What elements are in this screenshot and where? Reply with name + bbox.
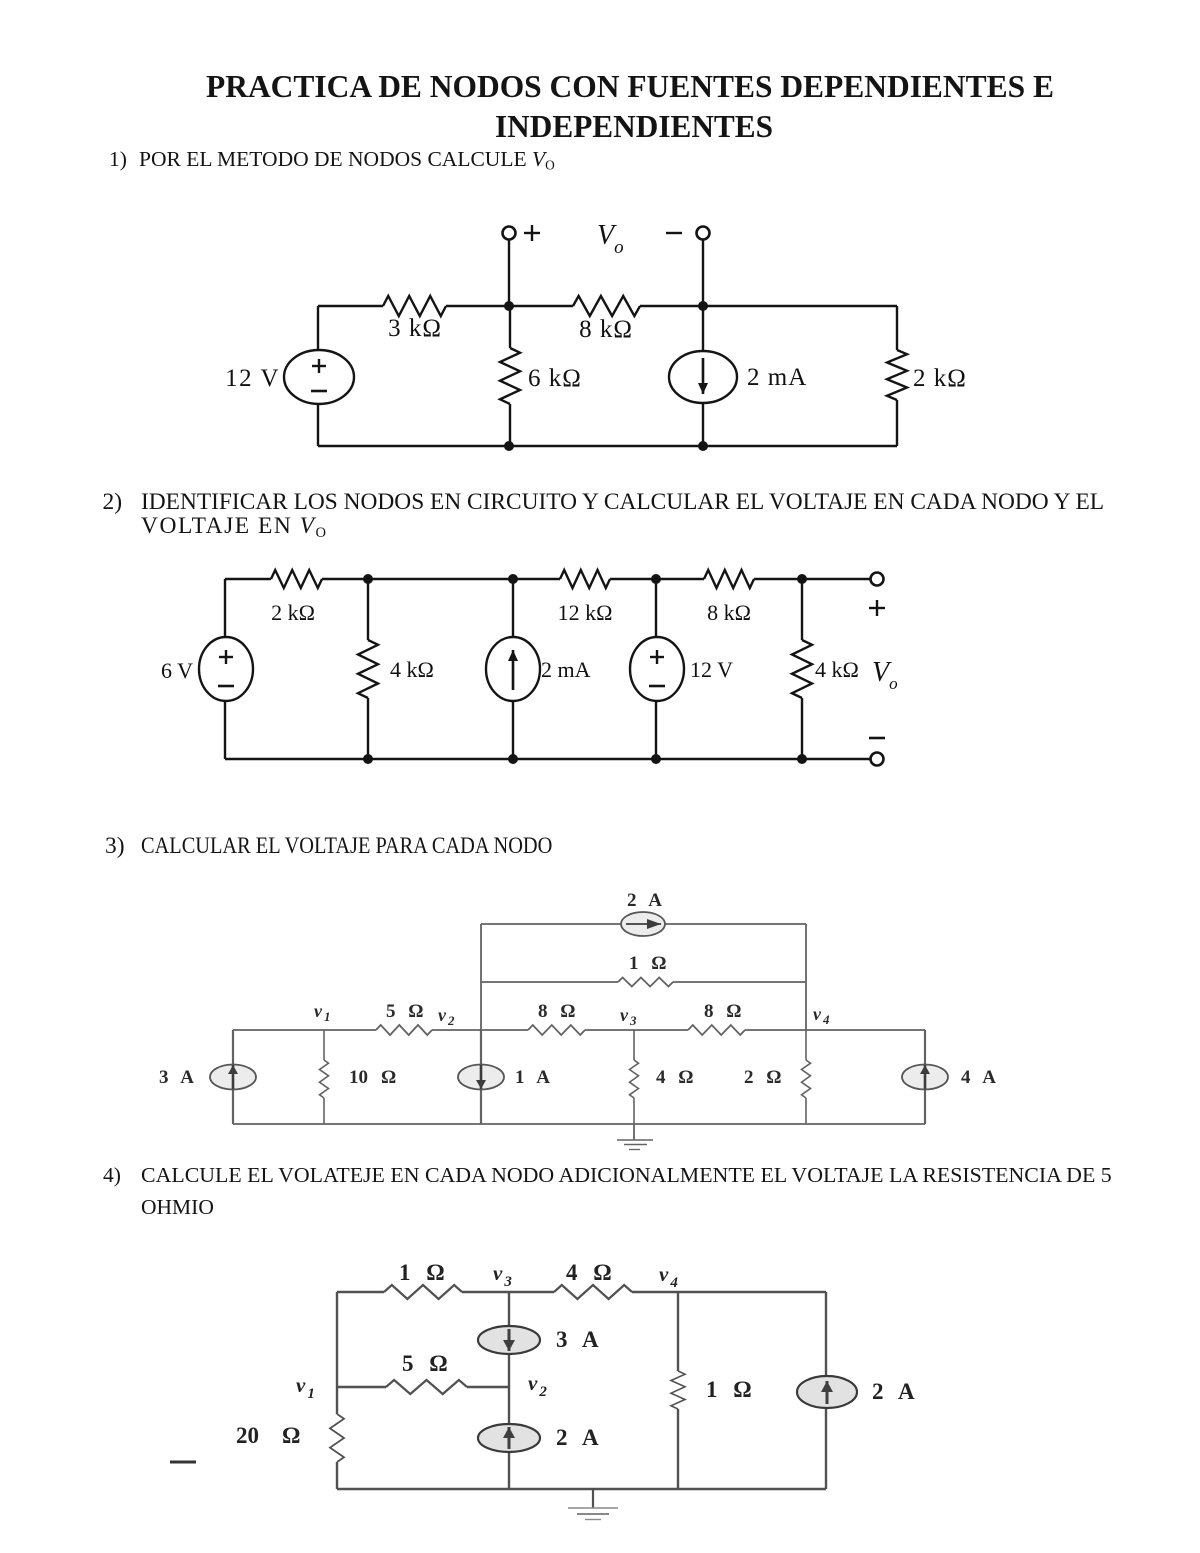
- svg-text:2 Ω: 2 Ω: [744, 1067, 785, 1088]
- svg-text:12 V: 12 V: [225, 365, 280, 392]
- svg-text:2 A: 2 A: [627, 890, 666, 911]
- svg-text:4 Ω: 4 Ω: [566, 1260, 617, 1285]
- svg-text:1 Ω: 1 Ω: [399, 1260, 450, 1285]
- svg-text:v3: v3: [493, 1261, 512, 1290]
- svg-text:2 mA: 2 mA: [747, 364, 807, 391]
- svg-text:v1: v1: [296, 1373, 315, 1402]
- svg-text:3 A: 3 A: [159, 1067, 198, 1088]
- svg-text:4 kΩ: 4 kΩ: [815, 657, 859, 682]
- svg-text:Vo: Vo: [597, 220, 624, 258]
- svg-text:2 mA: 2 mA: [541, 657, 591, 682]
- svg-text:2 A: 2 A: [556, 1425, 604, 1450]
- svg-text:1 Ω: 1 Ω: [706, 1377, 757, 1402]
- svg-text:2 kΩ: 2 kΩ: [271, 600, 315, 625]
- svg-text:8 kΩ: 8 kΩ: [579, 316, 633, 343]
- svg-text:6 V: 6 V: [161, 658, 193, 683]
- svg-text:8 Ω: 8 Ω: [538, 1001, 579, 1022]
- svg-text:20: 20: [236, 1423, 259, 1448]
- svg-text:v2: v2: [528, 1371, 547, 1400]
- svg-text:3 A: 3 A: [556, 1327, 604, 1352]
- svg-text:v4: v4: [659, 1262, 678, 1291]
- svg-text:2 A: 2 A: [872, 1379, 920, 1404]
- svg-text:4 A: 4 A: [961, 1067, 1000, 1088]
- svg-text:8 kΩ: 8 kΩ: [707, 600, 751, 625]
- svg-text:12 kΩ: 12 kΩ: [558, 600, 613, 625]
- svg-text:6 kΩ: 6 kΩ: [528, 365, 582, 392]
- svg-text:2 kΩ: 2 kΩ: [913, 365, 967, 392]
- svg-text:8 Ω: 8 Ω: [704, 1001, 745, 1022]
- svg-text:1 Ω: 1 Ω: [629, 953, 670, 974]
- svg-text:10: 10: [349, 1067, 368, 1088]
- svg-text:5 Ω: 5 Ω: [386, 1001, 427, 1022]
- svg-text:v2: v2: [438, 1005, 455, 1028]
- svg-text:v3: v3: [620, 1005, 637, 1028]
- svg-text:5 Ω: 5 Ω: [402, 1351, 453, 1376]
- svg-text:4 Ω: 4 Ω: [656, 1067, 697, 1088]
- svg-text:Ω: Ω: [381, 1067, 396, 1088]
- svg-text:Ω: Ω: [282, 1423, 300, 1448]
- svg-text:Vo: Vo: [872, 657, 898, 693]
- svg-text:4 kΩ: 4 kΩ: [390, 657, 434, 682]
- svg-text:v4: v4: [813, 1004, 830, 1027]
- svg-text:3 kΩ: 3 kΩ: [388, 315, 442, 342]
- svg-text:12 V: 12 V: [690, 657, 733, 682]
- svg-text:1 A: 1 A: [515, 1067, 554, 1088]
- svg-text:v1: v1: [314, 1001, 331, 1024]
